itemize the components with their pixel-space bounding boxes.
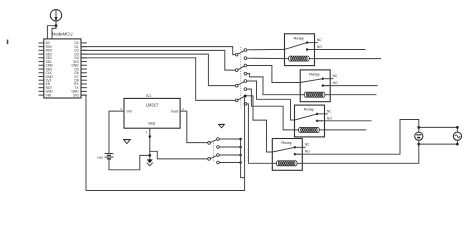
junction supply node xyxy=(55,24,58,27)
svg-text:Vin: Vin xyxy=(127,109,132,113)
wire 3V3 pin down to bottom bus xyxy=(81,95,244,190)
wire lower throw 3 to bus xyxy=(219,154,241,157)
svg-text:1: 1 xyxy=(146,130,148,134)
svg-text:+9V: +9V xyxy=(97,156,104,160)
svg-text:NO: NO xyxy=(305,150,310,154)
switch S3 xyxy=(235,80,246,91)
svg-text:NO: NO xyxy=(327,116,332,120)
wire supply to chip top (left) xyxy=(47,26,56,39)
pin number 1 (Vadj) xyxy=(146,130,148,134)
DC source xyxy=(415,127,423,144)
wire S3 NO throw to relay K3 coil xyxy=(247,89,295,130)
svg-text:NO: NO xyxy=(333,81,338,85)
pin number 2 (Vout) xyxy=(182,107,184,111)
wire parallel link top xyxy=(419,126,458,128)
svg-text:NC: NC xyxy=(333,74,338,78)
svg-text:Relay: Relay xyxy=(309,72,319,77)
wire K4 NO contact to DC source top xyxy=(295,120,419,155)
pin number 3 (Vin) xyxy=(120,107,122,111)
relay K2 xyxy=(300,70,338,102)
wire K2 NO contact out xyxy=(323,85,378,87)
wire D3 to switch S3 pole xyxy=(81,54,235,86)
switch S5 xyxy=(208,138,220,149)
IC U1 NodeMCU xyxy=(39,32,87,98)
ground symbol near lower switches xyxy=(219,124,225,127)
wire D4 to switch S4 pole xyxy=(81,58,235,101)
junction S4 NC throw / bus riser xyxy=(244,95,247,98)
junction battery/ground node xyxy=(148,154,151,157)
wire supply to chip top (right) xyxy=(52,26,56,39)
wire battery - loop to Vadj/ground node xyxy=(109,155,150,169)
stray mark left edge xyxy=(7,40,9,45)
wire K2 coil out xyxy=(330,94,377,96)
svg-text:2: 2 xyxy=(182,107,184,111)
svg-text:NC: NC xyxy=(305,143,310,147)
svg-text:NodeMCU: NodeMCU xyxy=(52,32,73,37)
svg-text:3V3: 3V3 xyxy=(73,93,79,97)
svg-text:3: 3 xyxy=(120,107,122,111)
wire lower throw 1 to bus xyxy=(219,138,241,141)
wire K3 coil out xyxy=(324,129,366,131)
junction DC source bottom xyxy=(417,143,420,146)
svg-text:VIN: VIN xyxy=(46,93,52,97)
voltage regulator IC1 LM317 xyxy=(118,94,185,134)
wire lower throw bus to riser xyxy=(241,139,245,178)
relay K4 xyxy=(272,139,310,171)
svg-text:Relay: Relay xyxy=(304,107,314,112)
ground (arrow) below Vadj xyxy=(147,159,153,165)
svg-text:IC1: IC1 xyxy=(146,94,152,98)
wire K1 coil out xyxy=(314,58,381,60)
relay K1 xyxy=(285,34,323,66)
wire S1 NO throw to relay K1 coil xyxy=(247,57,285,59)
AC source xyxy=(453,127,461,144)
junction Vadj node xyxy=(149,135,152,138)
wire parallel link bottom xyxy=(419,143,458,145)
svg-text:Relay: Relay xyxy=(294,35,304,40)
svg-text:NC: NC xyxy=(327,109,332,113)
svg-text:Vadj: Vadj xyxy=(148,121,155,125)
svg-text:Vout: Vout xyxy=(171,109,178,113)
wire ground node to switch S6 pole xyxy=(150,151,208,159)
wire K3 NO contact out xyxy=(317,120,372,122)
wire S2 NO throw to relay K2 coil xyxy=(247,74,300,95)
junction AC source top xyxy=(456,126,459,129)
switch S6 xyxy=(208,154,220,164)
wire S4 NO throw to relay K4 coil xyxy=(247,104,272,163)
switch gang dashed link S5-S6 xyxy=(213,141,215,162)
battery BT1 +9V xyxy=(97,154,114,161)
wire lower throw 4 to bus xyxy=(219,161,241,164)
wire S4 NC throw to relay K4 common xyxy=(245,96,272,152)
relay K3 xyxy=(295,105,333,137)
wire D2 to switch S2 pole xyxy=(81,50,235,70)
ground symbol near battery xyxy=(124,140,131,144)
svg-text:NO: NO xyxy=(317,45,322,49)
junction AC source bottom xyxy=(456,143,459,146)
wire Vadj down to ground xyxy=(149,134,151,160)
wire Vout to switch S5 pole xyxy=(186,111,208,143)
wire S3 NC throw to relay K3 common xyxy=(247,81,295,120)
wire K1 NO contact out xyxy=(307,49,365,51)
wire D1 to switch S1 pole xyxy=(81,47,235,55)
wire K4 coil to DC source bottom xyxy=(302,144,419,163)
wire S2 NC throw to relay K2 common xyxy=(247,66,300,83)
svg-text:LM317: LM317 xyxy=(146,102,159,107)
power supply symbol xyxy=(50,10,61,26)
switch S1 xyxy=(235,49,246,60)
switch S4 xyxy=(235,95,246,106)
svg-text:Relay: Relay xyxy=(281,140,291,145)
junction DC source top xyxy=(417,126,420,129)
switch gang dashed link S1-S4 xyxy=(240,47,242,108)
wire Vin to battery + xyxy=(109,111,118,153)
wire lower throw 2 to bus xyxy=(219,146,241,149)
wire S1 NC throw to relay K1 common xyxy=(247,48,285,50)
svg-text:NC: NC xyxy=(317,38,322,42)
switch S2 xyxy=(235,64,246,75)
